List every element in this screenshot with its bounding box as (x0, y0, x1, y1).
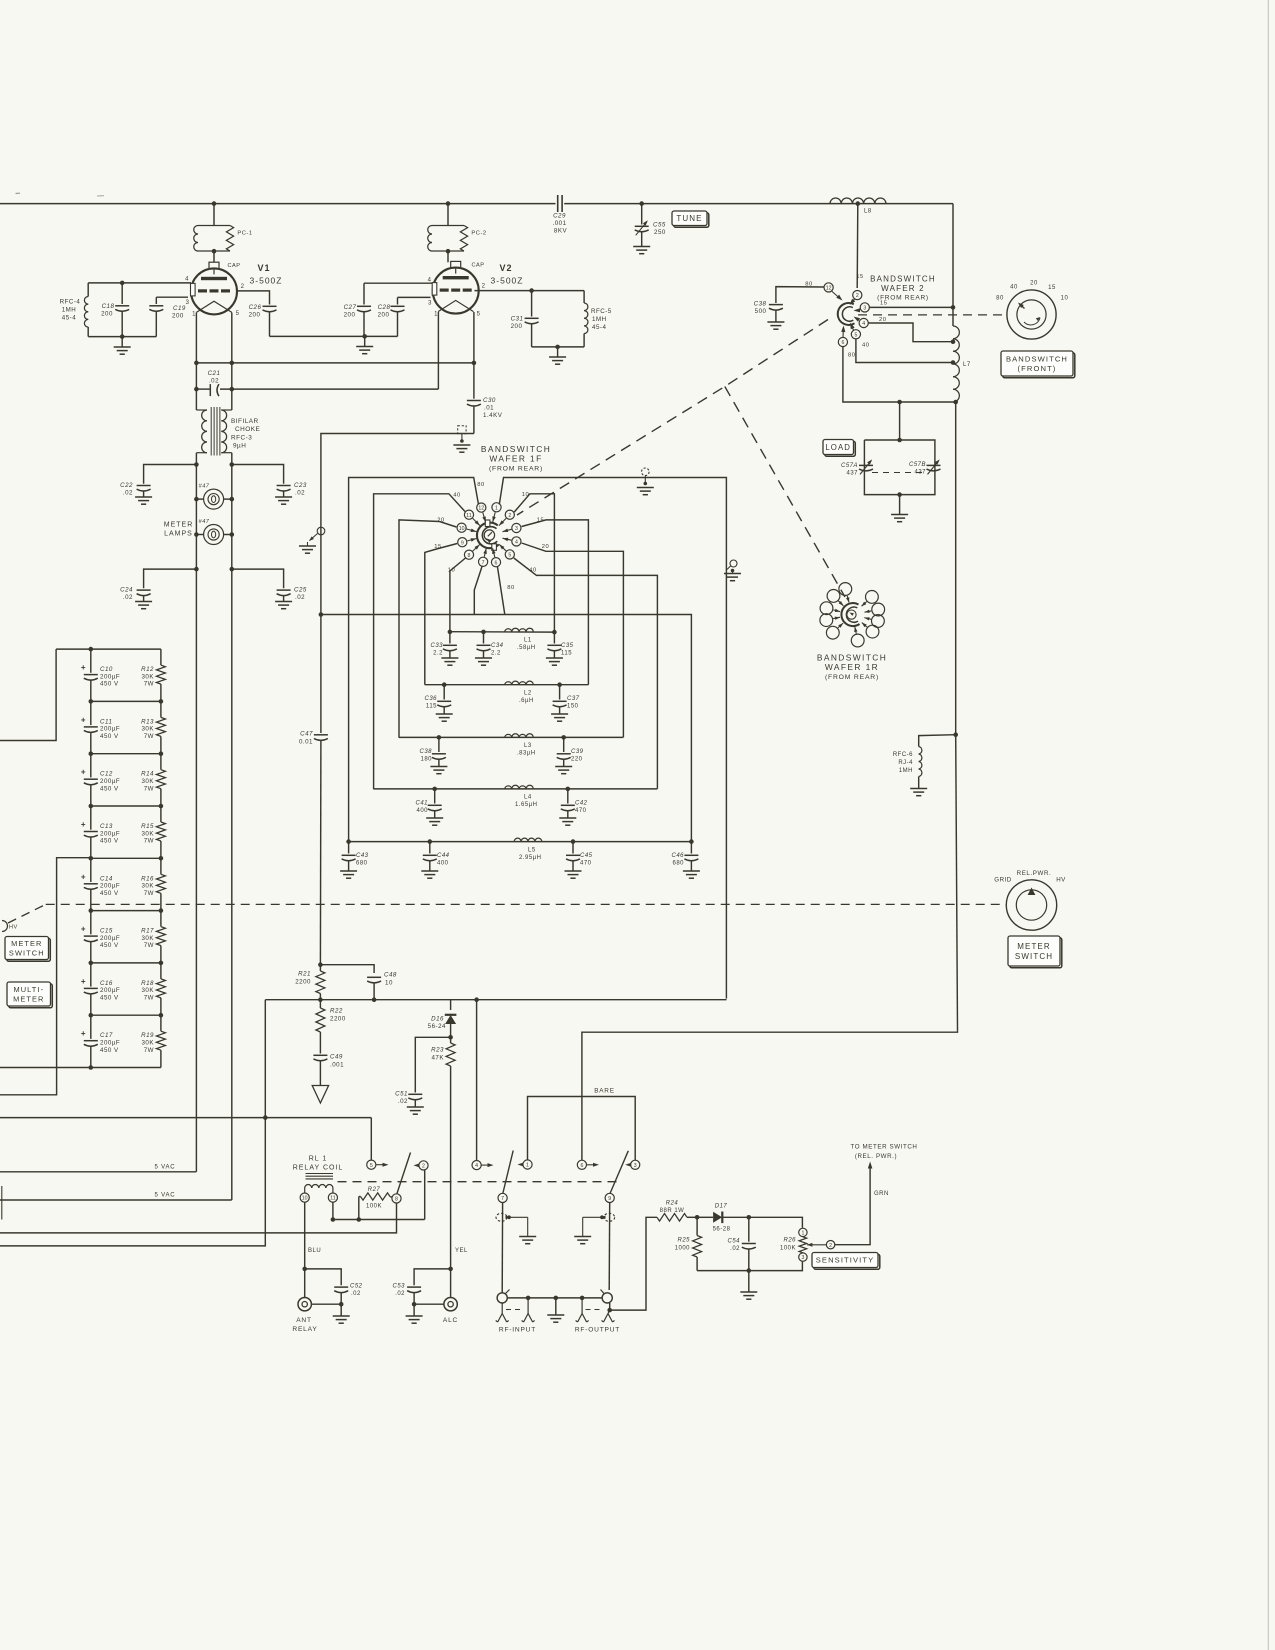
svg-text:C29: C29 (553, 213, 566, 220)
svg-text:7W: 7W (144, 838, 154, 845)
resistor R25 1000 (693, 1217, 702, 1270)
contact 5 (367, 1160, 389, 1169)
svg-text:METER: METER (164, 522, 194, 529)
label C11 200uF 450V (100, 718, 120, 740)
svg-text:5 VAC: 5 VAC (155, 1193, 176, 1199)
svg-text:C52: C52 (350, 1284, 363, 1290)
label CAP (V1) (228, 263, 241, 269)
svg-text:9: 9 (461, 540, 464, 546)
svg-text:BANDSWITCH: BANDSWITCH (870, 275, 936, 284)
svg-text:C49: C49 (330, 1054, 343, 1061)
wafer1F pin 5 (499, 544, 514, 559)
svg-text:200: 200 (172, 313, 184, 320)
svg-text:C22: C22 (120, 482, 133, 489)
node C33 (448, 630, 453, 635)
node C36 (442, 682, 447, 687)
svg-text:PC-2: PC-2 (471, 231, 486, 237)
capacitor C33 (441, 632, 458, 665)
capacitor C51 (407, 1037, 451, 1114)
inductor L3 (505, 734, 534, 738)
svg-text:C35: C35 (561, 643, 574, 649)
wafer1F pin 9 (458, 538, 477, 547)
svg-text:400: 400 (437, 861, 449, 867)
wire bank rail 7 (91, 1014, 161, 1016)
contact 1 (518, 1160, 533, 1169)
svg-text:C51: C51 (395, 1091, 408, 1098)
svg-text:C27: C27 (344, 304, 357, 311)
svg-text:C19: C19 (173, 305, 186, 312)
node bank rail 1b (159, 699, 164, 704)
svg-text:200µF: 200µF (100, 1040, 120, 1047)
resistor R19 30K 7W (156, 1015, 165, 1067)
svg-text:D16: D16 (431, 1016, 444, 1023)
capacitor C31 (525, 291, 539, 347)
label R22 2200 (330, 1008, 346, 1023)
wafer2 pin 2 (850, 291, 862, 306)
label 15 (wafer2 pin2 band) (856, 274, 863, 280)
svg-text:C11: C11 (100, 718, 112, 725)
label C49 .001 (330, 1054, 344, 1069)
label V1 (257, 263, 270, 273)
svg-text:R27: R27 (368, 1187, 381, 1193)
svg-text:.02: .02 (398, 1098, 408, 1105)
svg-text:C38: C38 (419, 749, 432, 755)
svg-text:R25: R25 (677, 1238, 690, 1244)
svg-text:15: 15 (880, 301, 887, 307)
wire R26 feed (749, 1217, 803, 1228)
label 15 (wafer2 pin3 band) (880, 301, 887, 307)
tube V2 3-500Z (432, 261, 479, 313)
svg-text:C39: C39 (571, 749, 584, 755)
node bank rail 1a (89, 699, 94, 704)
wire load box outline (864, 440, 935, 495)
connector HV (edge) (2, 921, 18, 932)
capacitor C55 (variable, TUNE) (635, 204, 649, 246)
svg-text:R12: R12 (141, 666, 154, 673)
svg-text:30K: 30K (141, 830, 154, 837)
wire V1 pin2 to C26 (237, 291, 270, 305)
label RL1 RELAY COIL (293, 1156, 344, 1172)
dashed coupling branch to wafer1R (725, 387, 845, 598)
label 15 right (wafer1F) (537, 518, 544, 524)
wire 5VAC line 2 (0, 1199, 232, 1201)
svg-text:470: 470 (580, 861, 592, 867)
svg-text:C48: C48 (384, 972, 397, 979)
svg-text:1MH: 1MH (62, 307, 77, 314)
label C53 .02 (392, 1284, 405, 1298)
capacitor C47 (inline) (314, 615, 328, 965)
label R21 2200 (295, 971, 311, 986)
wafer1F pin 4 (503, 537, 522, 546)
svg-text:C45: C45 (580, 853, 593, 859)
node C48 bottom (372, 997, 377, 1002)
RF output switch arm (610, 1151, 628, 1194)
wire C31 bottom rail (532, 346, 585, 348)
svg-text:RELAY COIL: RELAY COIL (293, 1165, 344, 1172)
svg-text:80: 80 (477, 482, 484, 488)
wafer1F pin 8 (464, 545, 479, 560)
node bank rail 5a (89, 908, 94, 913)
wire V2 filament left leg (437, 312, 439, 389)
label C41 400 (415, 801, 428, 815)
node bank rail 2b (159, 751, 164, 756)
svg-text:C12: C12 (100, 771, 113, 778)
wire C26-C28 bottom rail (270, 335, 398, 337)
switch wafer 1F rotor (477, 520, 499, 550)
svg-text:6: 6 (580, 1163, 583, 1169)
feedthrough ground on pin1 line (637, 468, 654, 495)
wire L5 row (349, 841, 692, 843)
node PC-2 bottom (446, 249, 451, 262)
label box METER SWITCH (5, 937, 50, 962)
label BIFILAR CHOKE RFC-3 9uH (231, 418, 260, 450)
wafer2 pin 3 (854, 303, 870, 313)
label V1 3-500Z (250, 276, 283, 286)
svg-text:.58µH: .58µH (517, 645, 536, 651)
capacitor C46 (683, 842, 700, 879)
node bank rail 2a (89, 751, 94, 756)
label 40 left (wafer1F) (453, 493, 460, 499)
svg-text:20: 20 (1030, 281, 1038, 287)
wire contact7 down (501, 1203, 503, 1294)
svg-text:PC-1: PC-1 (237, 231, 252, 237)
svg-text:.02: .02 (123, 490, 133, 497)
svg-text:20: 20 (542, 544, 549, 550)
svg-text:30K: 30K (141, 883, 154, 890)
svg-text:.01: .01 (484, 405, 494, 412)
node C45 (571, 839, 576, 844)
wire RFC-4 bottom rail (88, 336, 156, 338)
svg-text:2: 2 (829, 1243, 832, 1249)
svg-text:C57A: C57A (841, 463, 858, 469)
label 40 bottom-right (wafer1F) (529, 568, 536, 574)
svg-text:ANT: ANT (296, 1317, 312, 1324)
label R24 88R 1W (660, 1201, 685, 1215)
wire relay bottom link (333, 1170, 425, 1220)
dashed coupling wafer2 to bandswitch knob (858, 314, 1006, 316)
svg-text:V1: V1 (257, 263, 270, 273)
wire bank top rail (56, 648, 161, 650)
wire RF-OUT to R24 (610, 1217, 657, 1310)
node C31 rail ground (555, 345, 560, 350)
label TO METER SWITCH (851, 1144, 918, 1151)
wafer1R pin 8 (826, 623, 843, 639)
label L7 (963, 362, 971, 368)
node C43 (346, 839, 351, 844)
wire wafer2 pin3 to L7 (15m) (870, 306, 954, 308)
svg-text:200µF: 200µF (100, 935, 120, 942)
svg-text:30K: 30K (141, 935, 154, 942)
label C24 .02 (120, 587, 133, 602)
ground (C22) (135, 497, 152, 504)
node C35 (552, 630, 557, 635)
svg-text:R13: R13 (141, 718, 154, 725)
label C27 200 (344, 304, 357, 319)
svg-text:R16: R16 (141, 875, 154, 882)
svg-text:10: 10 (1061, 296, 1069, 302)
wire pin6 down (80m) (498, 567, 505, 615)
node load box top (897, 438, 902, 443)
svg-text:3: 3 (186, 300, 190, 306)
svg-text:3-500Z: 3-500Z (250, 276, 283, 286)
wire pin2 to L1 right rect (10m) (514, 494, 554, 632)
label BLU (308, 1248, 321, 1254)
relay coil RL1 (305, 1174, 333, 1194)
svg-text:8: 8 (468, 553, 471, 559)
label box LOAD (823, 440, 855, 457)
svg-text:METER: METER (11, 939, 42, 948)
svg-text:7W: 7W (144, 733, 154, 740)
label BARE (594, 1088, 615, 1095)
svg-text:.001: .001 (330, 1062, 344, 1069)
feedthrough ground (RF output line) (574, 1213, 615, 1243)
connector ANT RELAY (298, 1269, 341, 1311)
svg-text:450 V: 450 V (100, 838, 119, 845)
label GRID (994, 877, 1012, 884)
svg-text:1: 1 (192, 312, 196, 318)
node RF bus c (580, 1296, 585, 1301)
capacitor C36 (436, 685, 453, 722)
label C48 10 (384, 972, 397, 987)
svg-text:C10: C10 (100, 666, 113, 673)
svg-text:GRID: GRID (994, 877, 1012, 884)
svg-text:#47: #47 (199, 519, 210, 525)
node D16 bottom (448, 1035, 453, 1040)
capacitor C18 (115, 283, 129, 337)
inductor L7 (tank coil) (953, 326, 959, 402)
node fil bus 3 (472, 361, 477, 366)
wire pin11 to L4 rect (40m) (374, 494, 465, 789)
potentiometer R26 100K (799, 1237, 826, 1253)
svg-text:40: 40 (862, 343, 869, 349)
svg-text:7W: 7W (144, 942, 154, 949)
label 80 (wafer2 pin6 band) (848, 353, 855, 359)
svg-text:.02: .02 (123, 594, 133, 601)
wire legs below choke (196, 453, 231, 1200)
label C57A 437 (841, 463, 858, 477)
label C54 .02 (727, 1239, 740, 1253)
svg-text:1: 1 (526, 1163, 529, 1169)
svg-text:.02: .02 (395, 1291, 405, 1297)
svg-text:WAFER 1R: WAFER 1R (825, 662, 879, 672)
svg-text:2: 2 (482, 284, 486, 290)
svg-text:200µF: 200µF (100, 830, 120, 837)
capacitor C42 (559, 789, 576, 825)
pot terminal 1 (799, 1228, 807, 1236)
svg-text:115: 115 (426, 704, 437, 710)
label L1 .58uH (517, 638, 536, 652)
label C28 200 (378, 304, 391, 319)
wire wafer2 pin12 to C38 (776, 287, 824, 303)
label C29 .001 8KV (552, 213, 567, 235)
svg-text:C30: C30 (483, 397, 496, 404)
svg-text:7W: 7W (144, 890, 154, 897)
wire V1 filament right leg (231, 313, 233, 411)
label R23 47K (431, 1047, 444, 1062)
node load box bottom (897, 492, 902, 497)
label C46 680 (671, 853, 684, 867)
wire V1 pin4 line (88, 282, 191, 284)
svg-text:C31: C31 (511, 316, 524, 323)
node bank rail 4b (159, 856, 164, 861)
label C10 200uF 450V (100, 666, 120, 688)
wire plate RF line down right side (956, 402, 958, 1031)
relay terminal 11 (328, 1193, 337, 1202)
label R17 30K 7W (141, 928, 154, 950)
label 5 VAC (2) (155, 1193, 176, 1199)
svg-text:56-24: 56-24 (428, 1023, 446, 1030)
node C46 (689, 839, 694, 844)
svg-text:450 V: 450 V (100, 890, 119, 897)
svg-text:10: 10 (385, 980, 393, 987)
capacitor C15 200uF 450V (81, 911, 98, 963)
svg-text:+: + (81, 977, 86, 986)
capacitor C54 (742, 1217, 756, 1270)
label C55 250 (653, 222, 666, 237)
svg-text:METER: METER (13, 995, 44, 1004)
node C54 top (747, 1215, 752, 1220)
capacitor C43 (340, 842, 357, 879)
prong RF-INPUT a (496, 1303, 509, 1322)
svg-text:C25: C25 (294, 587, 307, 594)
svg-text:C47: C47 (300, 731, 313, 738)
wire 5VAC line 1 (0, 1171, 196, 1173)
label HV (knob) (1056, 877, 1066, 884)
svg-text:3-500Z: 3-500Z (491, 276, 524, 286)
node C18 bottom (120, 334, 125, 339)
svg-text:RFC-6: RFC-6 (893, 752, 913, 758)
svg-text:V2: V2 (499, 263, 512, 273)
wire plate HV top bus (0, 203, 953, 205)
ground (C27 rail) (356, 336, 373, 353)
wafer1F pin 3 (503, 523, 522, 532)
capacitor C41 (426, 789, 443, 825)
svg-text:C53: C53 (392, 1284, 405, 1290)
svg-text:3: 3 (863, 306, 866, 312)
label V2 (499, 263, 512, 273)
node plate bus / L8 tap (856, 201, 861, 206)
svg-text:45-4: 45-4 (592, 324, 606, 331)
capacitor C25 (232, 569, 291, 601)
capacitor C57A (variable) (859, 459, 873, 474)
label knob 15 (1048, 285, 1056, 291)
ground (load box) (891, 495, 908, 522)
svg-text:C46: C46 (671, 853, 684, 859)
wire bank rail 2 (91, 753, 161, 755)
node C41 (432, 787, 437, 792)
node R27-link (357, 1217, 362, 1222)
svg-text:RFC-4: RFC-4 (60, 299, 81, 306)
svg-text:5: 5 (370, 1163, 373, 1169)
svg-text:LOAD: LOAD (825, 443, 851, 452)
svg-text:2: 2 (422, 1164, 425, 1170)
svg-text:200: 200 (344, 312, 356, 319)
svg-text:C28: C28 (378, 304, 391, 311)
svg-text:2.2: 2.2 (491, 651, 501, 657)
diode D17 56-28 (697, 1212, 749, 1224)
svg-text:C36: C36 (424, 696, 437, 702)
capacitor C28 (391, 297, 405, 336)
svg-text:.02: .02 (730, 1246, 740, 1252)
svg-text:2200: 2200 (330, 1016, 346, 1023)
svg-text:.6µH: .6µH (519, 698, 534, 704)
svg-text:RF-OUTPUT: RF-OUTPUT (575, 1327, 620, 1334)
resistor R22 2200 (316, 1000, 325, 1054)
label C39 220 (571, 749, 584, 763)
label C25 .02 (294, 587, 307, 602)
label C35 115 (561, 643, 574, 657)
resistor R24 88R 1W (657, 1214, 697, 1222)
capacitor C39 (555, 737, 572, 773)
wire multimeter tap (0, 858, 91, 1095)
inductor RFC-5 (584, 291, 588, 347)
wire bank rail 4 (91, 857, 161, 859)
wafer2 pin 4 (854, 317, 869, 328)
node BLU-C52 (302, 1267, 307, 1272)
svg-text:0.01: 0.01 (299, 739, 313, 746)
svg-text:BANDSWITCH: BANDSWITCH (1006, 354, 1068, 363)
capacitor C24 (137, 569, 197, 601)
dashed gang link C57A-C57B (872, 472, 927, 474)
svg-text:80: 80 (507, 585, 514, 591)
svg-text:400: 400 (416, 808, 428, 814)
svg-text:500: 500 (755, 308, 767, 315)
label C57B 437 (909, 462, 926, 476)
wafer1R pin 4 (820, 602, 840, 615)
label D17 (715, 1204, 728, 1210)
svg-text:15: 15 (1048, 285, 1056, 291)
wire bank bottom rail (0, 1067, 161, 1069)
wafer2 pin 5 (850, 323, 861, 339)
capacitor C34 (475, 632, 492, 665)
capacitor C23 (232, 465, 291, 497)
svg-text:REL.PWR.: REL.PWR. (1017, 870, 1052, 877)
node bank rail 4a (89, 856, 94, 861)
wire L8 tap to wafer2 pin2 (856, 204, 859, 288)
label GRN (874, 1191, 889, 1197)
contact 7 (arm pivot) (498, 1193, 507, 1202)
svg-text:5: 5 (854, 332, 857, 338)
svg-text:100K: 100K (366, 1204, 382, 1210)
feedthrough ground on outer right rect (724, 560, 741, 581)
svg-text:RFC-3: RFC-3 (231, 435, 252, 442)
node plate bus / V1 (212, 201, 217, 206)
node C25 tap (230, 567, 235, 572)
dashed meter switch shaft (8, 904, 1006, 923)
svg-text:7W: 7W (144, 995, 154, 1002)
label V2 3-500Z (491, 276, 524, 286)
wire bank rail 6 (91, 962, 161, 964)
svg-text:+: + (81, 925, 86, 934)
capacitor C30 (467, 363, 481, 434)
resistor R27 100K (359, 1193, 392, 1200)
svg-text:.001: .001 (552, 220, 566, 227)
svg-text:2.95µH: 2.95µH (519, 855, 541, 861)
node contact4 feed (474, 997, 479, 1002)
svg-text:C14: C14 (100, 875, 113, 882)
svg-text:TUNE: TUNE (676, 214, 702, 223)
bifilar choke RFC-3 (196, 407, 231, 456)
node fil bus 1 (194, 361, 199, 366)
svg-text:450 V: 450 V (100, 785, 119, 792)
svg-text:R18: R18 (141, 980, 154, 987)
wire R26 bottom rail (697, 1261, 802, 1270)
svg-text:C44: C44 (437, 853, 450, 859)
svg-text:680: 680 (356, 861, 368, 867)
svg-text:D17: D17 (715, 1204, 728, 1210)
node C18 top (120, 281, 125, 286)
wafer1F pin 12 (477, 503, 486, 522)
